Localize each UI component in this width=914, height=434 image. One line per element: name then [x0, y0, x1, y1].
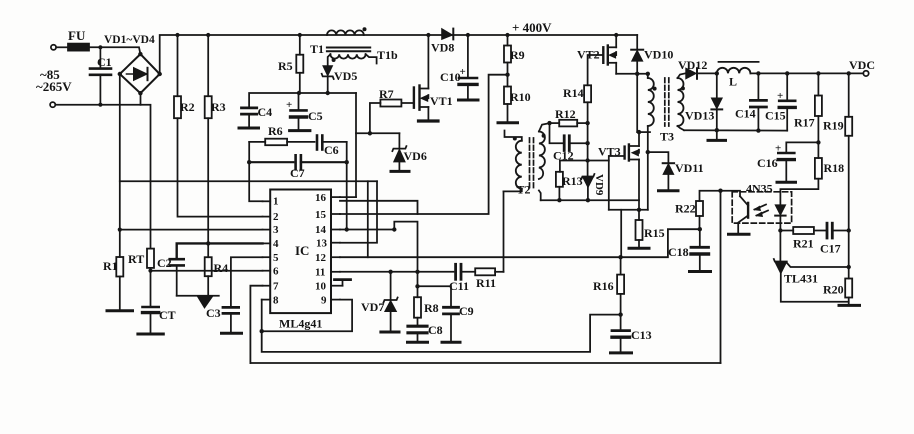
optocoupler 4N35 box	[732, 192, 791, 223]
svg-text:T2: T2	[517, 183, 531, 197]
node C16/R18	[816, 140, 820, 144]
svg-text:12: 12	[315, 252, 327, 264]
capacitor C3	[223, 306, 239, 309]
wire pin 13 riser	[340, 181, 377, 242]
transformer T2 right winding	[539, 123, 550, 131]
wire AC bottom to RT column	[141, 105, 151, 249]
svg-text:VT1: VT1	[430, 94, 453, 108]
fuse FU	[68, 44, 89, 51]
wire pin 16 short link	[340, 196, 356, 198]
svg-text:1: 1	[273, 196, 279, 208]
ground under R1	[107, 309, 133, 312]
wire R14/VD9 column	[587, 123, 589, 176]
wire pin1 riser	[249, 142, 262, 201]
wire T2/R13/VD9 bottom line	[541, 199, 639, 201]
node C7 right	[345, 160, 349, 164]
svg-text:C17: C17	[820, 242, 841, 256]
wire T3 primary node down	[647, 132, 649, 152]
node R13 line	[585, 158, 589, 162]
resistor R13	[559, 161, 561, 172]
node VD13 bottom	[715, 128, 719, 132]
wire AC bottom	[55, 104, 140, 106]
capacitor C9	[418, 286, 452, 307]
node pin14 right	[392, 227, 396, 231]
resistor R5	[296, 55, 303, 73]
ground under VD6	[391, 170, 409, 173]
node R3 top	[206, 33, 210, 37]
node R19/C17	[847, 228, 851, 232]
transformer T3 primary	[647, 74, 649, 78]
node T3 primary bottom	[637, 130, 641, 134]
node divider tap	[847, 265, 851, 269]
IC left pin stubs	[262, 201, 271, 299]
svg-text:VD12: VD12	[678, 58, 707, 72]
zener VD5	[323, 66, 333, 76]
svg-text:C18: C18	[668, 245, 689, 259]
resistor R22	[700, 191, 721, 201]
node C14 bottom	[756, 128, 760, 132]
svg-text:C15: C15	[765, 109, 786, 123]
MOSFET VT1	[414, 86, 420, 110]
svg-text:3: 3	[273, 224, 279, 236]
wire pin 14 line	[340, 229, 394, 231]
ground under C9	[442, 341, 460, 344]
node VD13 top	[715, 71, 719, 75]
capacitor C7	[249, 161, 293, 163]
node C15 top	[785, 71, 789, 75]
wire crossover bar	[120, 180, 377, 182]
diode VD10	[631, 49, 643, 51]
svg-text:T1: T1	[310, 42, 324, 56]
svg-text:+: +	[286, 99, 292, 111]
ground mini above pin10	[342, 280, 344, 286]
svg-text:VT2: VT2	[577, 48, 600, 62]
node C12 right	[585, 141, 589, 145]
diode VD11	[663, 162, 674, 164]
svg-text:R18: R18	[824, 161, 845, 175]
wire pin 15 line to R9 node	[340, 75, 508, 214]
resistor R4	[205, 257, 212, 276]
svg-text:R20: R20	[823, 283, 844, 297]
ground under opto emitter	[729, 233, 750, 236]
wire T2 bottom descender to R11	[503, 191, 505, 271]
ground under C13	[611, 351, 632, 354]
node C10 top	[466, 33, 470, 37]
node pin14/column	[345, 227, 349, 231]
node VD11 branch	[646, 150, 650, 154]
bridge rectifier VD1~VD4	[120, 54, 160, 93]
node VD5 bottom	[326, 91, 330, 95]
svg-text:R16: R16	[593, 279, 614, 293]
svg-text:C8: C8	[428, 323, 443, 337]
svg-text:R5: R5	[278, 59, 293, 73]
wire VD10 anode column	[636, 74, 638, 132]
resistor R6	[265, 139, 287, 146]
transformer T1 primary winding	[327, 30, 364, 35]
node VT1 drain	[426, 33, 430, 37]
svg-text:4N35: 4N35	[746, 182, 773, 196]
svg-text:R10: R10	[510, 90, 531, 104]
wire R18 to opto LED	[780, 179, 818, 205]
svg-text:13: 13	[316, 238, 328, 250]
svg-text:C3: C3	[206, 306, 221, 320]
ground under R10	[498, 121, 518, 124]
wire	[56, 46, 68, 48]
TL431	[779, 231, 781, 262]
wire opto collector feed	[721, 191, 741, 197]
capacitor C5	[298, 93, 300, 110]
IC ML4841 box	[270, 190, 331, 314]
svg-text:15: 15	[315, 209, 327, 221]
svg-text:R12: R12	[555, 107, 576, 121]
node VD10 bottom	[635, 72, 639, 76]
svg-text:VD9: VD9	[593, 174, 605, 196]
wire output ground rail	[684, 129, 787, 131]
capacitor C17	[826, 223, 829, 238]
wire primary node column B	[647, 152, 649, 210]
wire R14 to VT2 gate	[588, 55, 604, 85]
resistor R11	[475, 268, 495, 275]
wire R13 top line	[560, 160, 609, 162]
svg-text:R7: R7	[379, 87, 394, 101]
zener VD6	[398, 133, 400, 148]
capacitor C14	[757, 73, 759, 100]
svg-text:C14: C14	[735, 107, 756, 121]
wire pin 5 line	[231, 257, 263, 307]
node C9 branch	[415, 284, 419, 288]
resistor R3	[205, 96, 212, 118]
svg-text:16: 16	[315, 192, 327, 204]
svg-text:R19: R19	[823, 119, 844, 133]
resistor R14	[584, 85, 591, 102]
svg-text:R14: R14	[563, 86, 584, 100]
svg-text:C2: C2	[157, 256, 172, 270]
node C18 top	[698, 227, 702, 231]
capacitor C6	[316, 136, 319, 150]
node T3 primary top	[646, 72, 650, 76]
ground on output rail	[716, 130, 718, 140]
ground under C4	[239, 127, 259, 130]
resistor R19	[845, 117, 852, 136]
wire hook pin14 to R8 column	[394, 222, 417, 298]
wire pin 12 long line	[340, 229, 700, 257]
MOSFET VT2	[603, 46, 608, 65]
svg-text:R22: R22	[675, 202, 696, 216]
svg-text:R8: R8	[424, 301, 439, 315]
wire pin 3 line	[120, 229, 263, 231]
wire source bottom line	[609, 209, 648, 211]
svg-text:IC: IC	[295, 243, 309, 258]
svg-text:7: 7	[273, 281, 279, 293]
svg-text:~265V: ~265V	[36, 79, 72, 94]
wire C6/C7 right column to pin14	[346, 142, 348, 230]
wire TL431 ref	[787, 263, 849, 268]
node R2 top	[175, 33, 179, 37]
capacitor C16	[786, 142, 818, 152]
ground under C3	[222, 332, 242, 335]
resistor R2	[174, 96, 181, 118]
wire y93 line	[249, 93, 356, 108]
node R12 left	[547, 121, 551, 125]
zener VD7	[390, 272, 392, 300]
svg-text:R6: R6	[268, 124, 283, 138]
resistor R16	[617, 275, 624, 294]
svg-text:10: 10	[315, 281, 327, 293]
ground under R20	[839, 304, 860, 307]
ground under VD7	[381, 331, 399, 334]
ground under C5	[290, 129, 310, 132]
wire pin 4 line	[177, 243, 263, 259]
wire VD5 column V1	[355, 93, 357, 197]
svg-text:4: 4	[273, 238, 279, 250]
resistor R20	[845, 279, 852, 298]
resistor R7	[370, 103, 381, 133]
node RT bottom	[148, 269, 152, 273]
capacitor C8	[417, 318, 419, 326]
ground under VD11	[659, 189, 679, 192]
node R16 top	[618, 255, 622, 259]
wire R3 down to pin4 line	[207, 118, 209, 243]
capacitor C4	[242, 107, 257, 110]
node R21 left	[778, 228, 782, 232]
resistor RT	[147, 249, 154, 268]
wire VT2 source line	[616, 73, 648, 75]
node R15 top	[637, 208, 641, 212]
svg-text:FU: FU	[68, 28, 86, 43]
svg-text:C13: C13	[631, 328, 652, 342]
wire	[89, 47, 140, 54]
resistor R1	[116, 257, 123, 277]
svg-text:R15: R15	[644, 226, 665, 240]
node R5 top	[298, 33, 302, 37]
svg-text:T3: T3	[660, 130, 674, 144]
svg-text:VDC: VDC	[849, 58, 875, 72]
node opto feed	[718, 189, 722, 193]
svg-text:C6: C6	[324, 143, 339, 157]
diode VD8	[442, 29, 453, 40]
node R8 pin11	[415, 270, 419, 274]
svg-text:6: 6	[273, 266, 279, 278]
capacitor C15	[786, 73, 788, 100]
wire pin 12 riser	[367, 181, 369, 257]
svg-text:VD10: VD10	[644, 48, 673, 62]
MOSFET VT3	[625, 145, 629, 161]
wire output top rail	[750, 72, 863, 74]
wire DC minus column (bridge left vertex down)	[119, 74, 121, 230]
light arrows	[755, 205, 767, 210]
wire pin8 pin9 loop	[262, 300, 352, 332]
transformer T2 core	[529, 138, 531, 190]
svg-text:R13: R13	[562, 174, 583, 188]
svg-text:+ 400V: + 400V	[512, 20, 552, 35]
svg-text:C16: C16	[757, 156, 778, 170]
node R17 top	[816, 71, 820, 75]
wire to VD11	[648, 152, 669, 163]
svg-text:C10: C10	[440, 70, 461, 84]
capacitor CT	[150, 271, 152, 307]
svg-text:R2: R2	[180, 100, 195, 114]
svg-text:+: +	[775, 143, 781, 155]
AC input terminal bottom	[50, 102, 55, 107]
wire pin 11 line	[340, 271, 454, 273]
svg-text:C5: C5	[308, 109, 323, 123]
transformer T3 secondary	[678, 73, 686, 78]
ground arrow C2/R4	[198, 297, 213, 309]
node VT2 drain	[614, 33, 618, 37]
svg-text:L: L	[729, 75, 737, 89]
svg-text:5: 5	[273, 252, 279, 264]
zener VD9	[581, 174, 594, 179]
svg-text:R4: R4	[214, 261, 229, 275]
capacitor C1	[99, 47, 101, 68]
node VD7 top	[388, 270, 392, 274]
node C14 top	[756, 71, 760, 75]
resistor R8	[414, 297, 421, 318]
svg-text:+: +	[777, 90, 783, 102]
node R13 bottom	[557, 198, 561, 202]
ground under C8	[408, 341, 428, 344]
svg-text:VD8: VD8	[431, 41, 454, 55]
terminal VDC	[863, 71, 868, 76]
wire T3 primary bottom	[637, 131, 650, 133]
diode VD13	[716, 73, 718, 97]
svg-text:T1b: T1b	[377, 48, 398, 62]
svg-text:VD7: VD7	[361, 300, 384, 314]
opto phototransistor	[747, 203, 749, 218]
wire bottom long line A	[262, 315, 621, 352]
svg-text:C11: C11	[449, 279, 469, 293]
node R19 top	[847, 71, 851, 75]
svg-text:ML4g41: ML4g41	[279, 317, 322, 331]
wire to bridge bottom vertex	[140, 93, 142, 105]
ground under C16	[777, 181, 796, 184]
wire bottom long line B	[250, 362, 720, 364]
svg-text:VD6: VD6	[404, 149, 427, 163]
svg-text:R9: R9	[510, 48, 525, 62]
svg-text:R3: R3	[211, 100, 226, 114]
node pin3 line left	[118, 228, 122, 232]
wire C2/R4 bottom	[177, 295, 219, 297]
wire pin7 descender	[250, 286, 262, 363]
svg-text:2: 2	[273, 211, 279, 223]
svg-text:C9: C9	[459, 304, 474, 318]
svg-text:C7: C7	[290, 166, 305, 180]
node R9 top	[505, 33, 509, 37]
node R5/C5	[297, 91, 301, 95]
inductor L	[717, 68, 751, 74]
svg-text:VD13: VD13	[685, 109, 714, 123]
svg-text:14: 14	[315, 224, 327, 236]
svg-text:8: 8	[273, 295, 279, 307]
wire to R16	[620, 210, 622, 257]
wire pin 6 line	[151, 268, 263, 271]
ground under R15	[629, 247, 649, 250]
capacitor C18	[699, 229, 701, 247]
node C1 top	[98, 45, 102, 49]
resistor R21	[780, 230, 793, 232]
node R3/pin4	[206, 241, 210, 245]
wire VT3 gate	[609, 156, 625, 210]
svg-text:C1: C1	[97, 55, 112, 69]
wire R7 node line	[356, 132, 399, 134]
svg-text:CT: CT	[159, 308, 176, 322]
resistor R9	[504, 46, 511, 63]
node C13 top	[618, 312, 622, 316]
ground under CT	[138, 333, 163, 336]
wire R2 to pin 2	[178, 118, 263, 216]
capacitor C11	[454, 264, 457, 279]
capacitor C13	[620, 315, 622, 331]
capacitor C2	[170, 258, 184, 261]
wire pin 16 long line H1	[340, 201, 418, 214]
IC right pin stubs	[331, 197, 343, 300]
node R7 junction	[368, 131, 372, 135]
node VD9 bottom	[586, 198, 590, 202]
svg-text:RT: RT	[128, 252, 144, 266]
wire rail corner to VD10	[636, 35, 638, 50]
svg-text:VD5: VD5	[334, 69, 357, 83]
svg-text:VD1~VD4: VD1~VD4	[104, 34, 155, 46]
node R12 right / R14 bottom	[585, 121, 589, 125]
+400V rail	[178, 34, 638, 36]
svg-text:R1: R1	[103, 259, 118, 273]
ground under VT1	[419, 119, 439, 122]
resistor R10	[504, 87, 511, 105]
node pin8 loop	[260, 329, 264, 333]
node R9/R10	[505, 73, 509, 77]
wire bridge right vertex to +rail	[160, 35, 178, 74]
svg-text:VD11: VD11	[675, 161, 704, 175]
ground under C10	[459, 99, 479, 102]
capacitor C12	[550, 123, 564, 143]
svg-text:9: 9	[321, 295, 327, 307]
resistor R17	[815, 96, 822, 117]
svg-text:TL431: TL431	[784, 272, 818, 286]
resistor R18	[815, 158, 822, 179]
transformer T2 left winding	[505, 131, 522, 141]
resistor R15	[636, 220, 643, 240]
svg-text:C4: C4	[258, 105, 273, 119]
svg-text:R21: R21	[793, 237, 814, 251]
transformer T3 core	[664, 78, 666, 126]
resistor R12	[550, 122, 560, 124]
transformer T1 core	[327, 47, 370, 49]
ground under C18	[690, 270, 711, 273]
opto LED	[775, 205, 785, 215]
capacitor C10	[467, 35, 469, 78]
node C1 bottom	[98, 103, 102, 107]
diode VD12	[686, 68, 696, 79]
IC pin numbers	[273, 192, 328, 307]
AC input terminal top	[51, 45, 56, 50]
node C7 left	[247, 160, 251, 164]
svg-text:R11: R11	[476, 276, 496, 290]
svg-text:R17: R17	[794, 116, 815, 130]
wire opto to bottom loop	[720, 191, 722, 363]
svg-text:11: 11	[315, 267, 325, 279]
transformer T1b winding	[330, 54, 365, 58]
